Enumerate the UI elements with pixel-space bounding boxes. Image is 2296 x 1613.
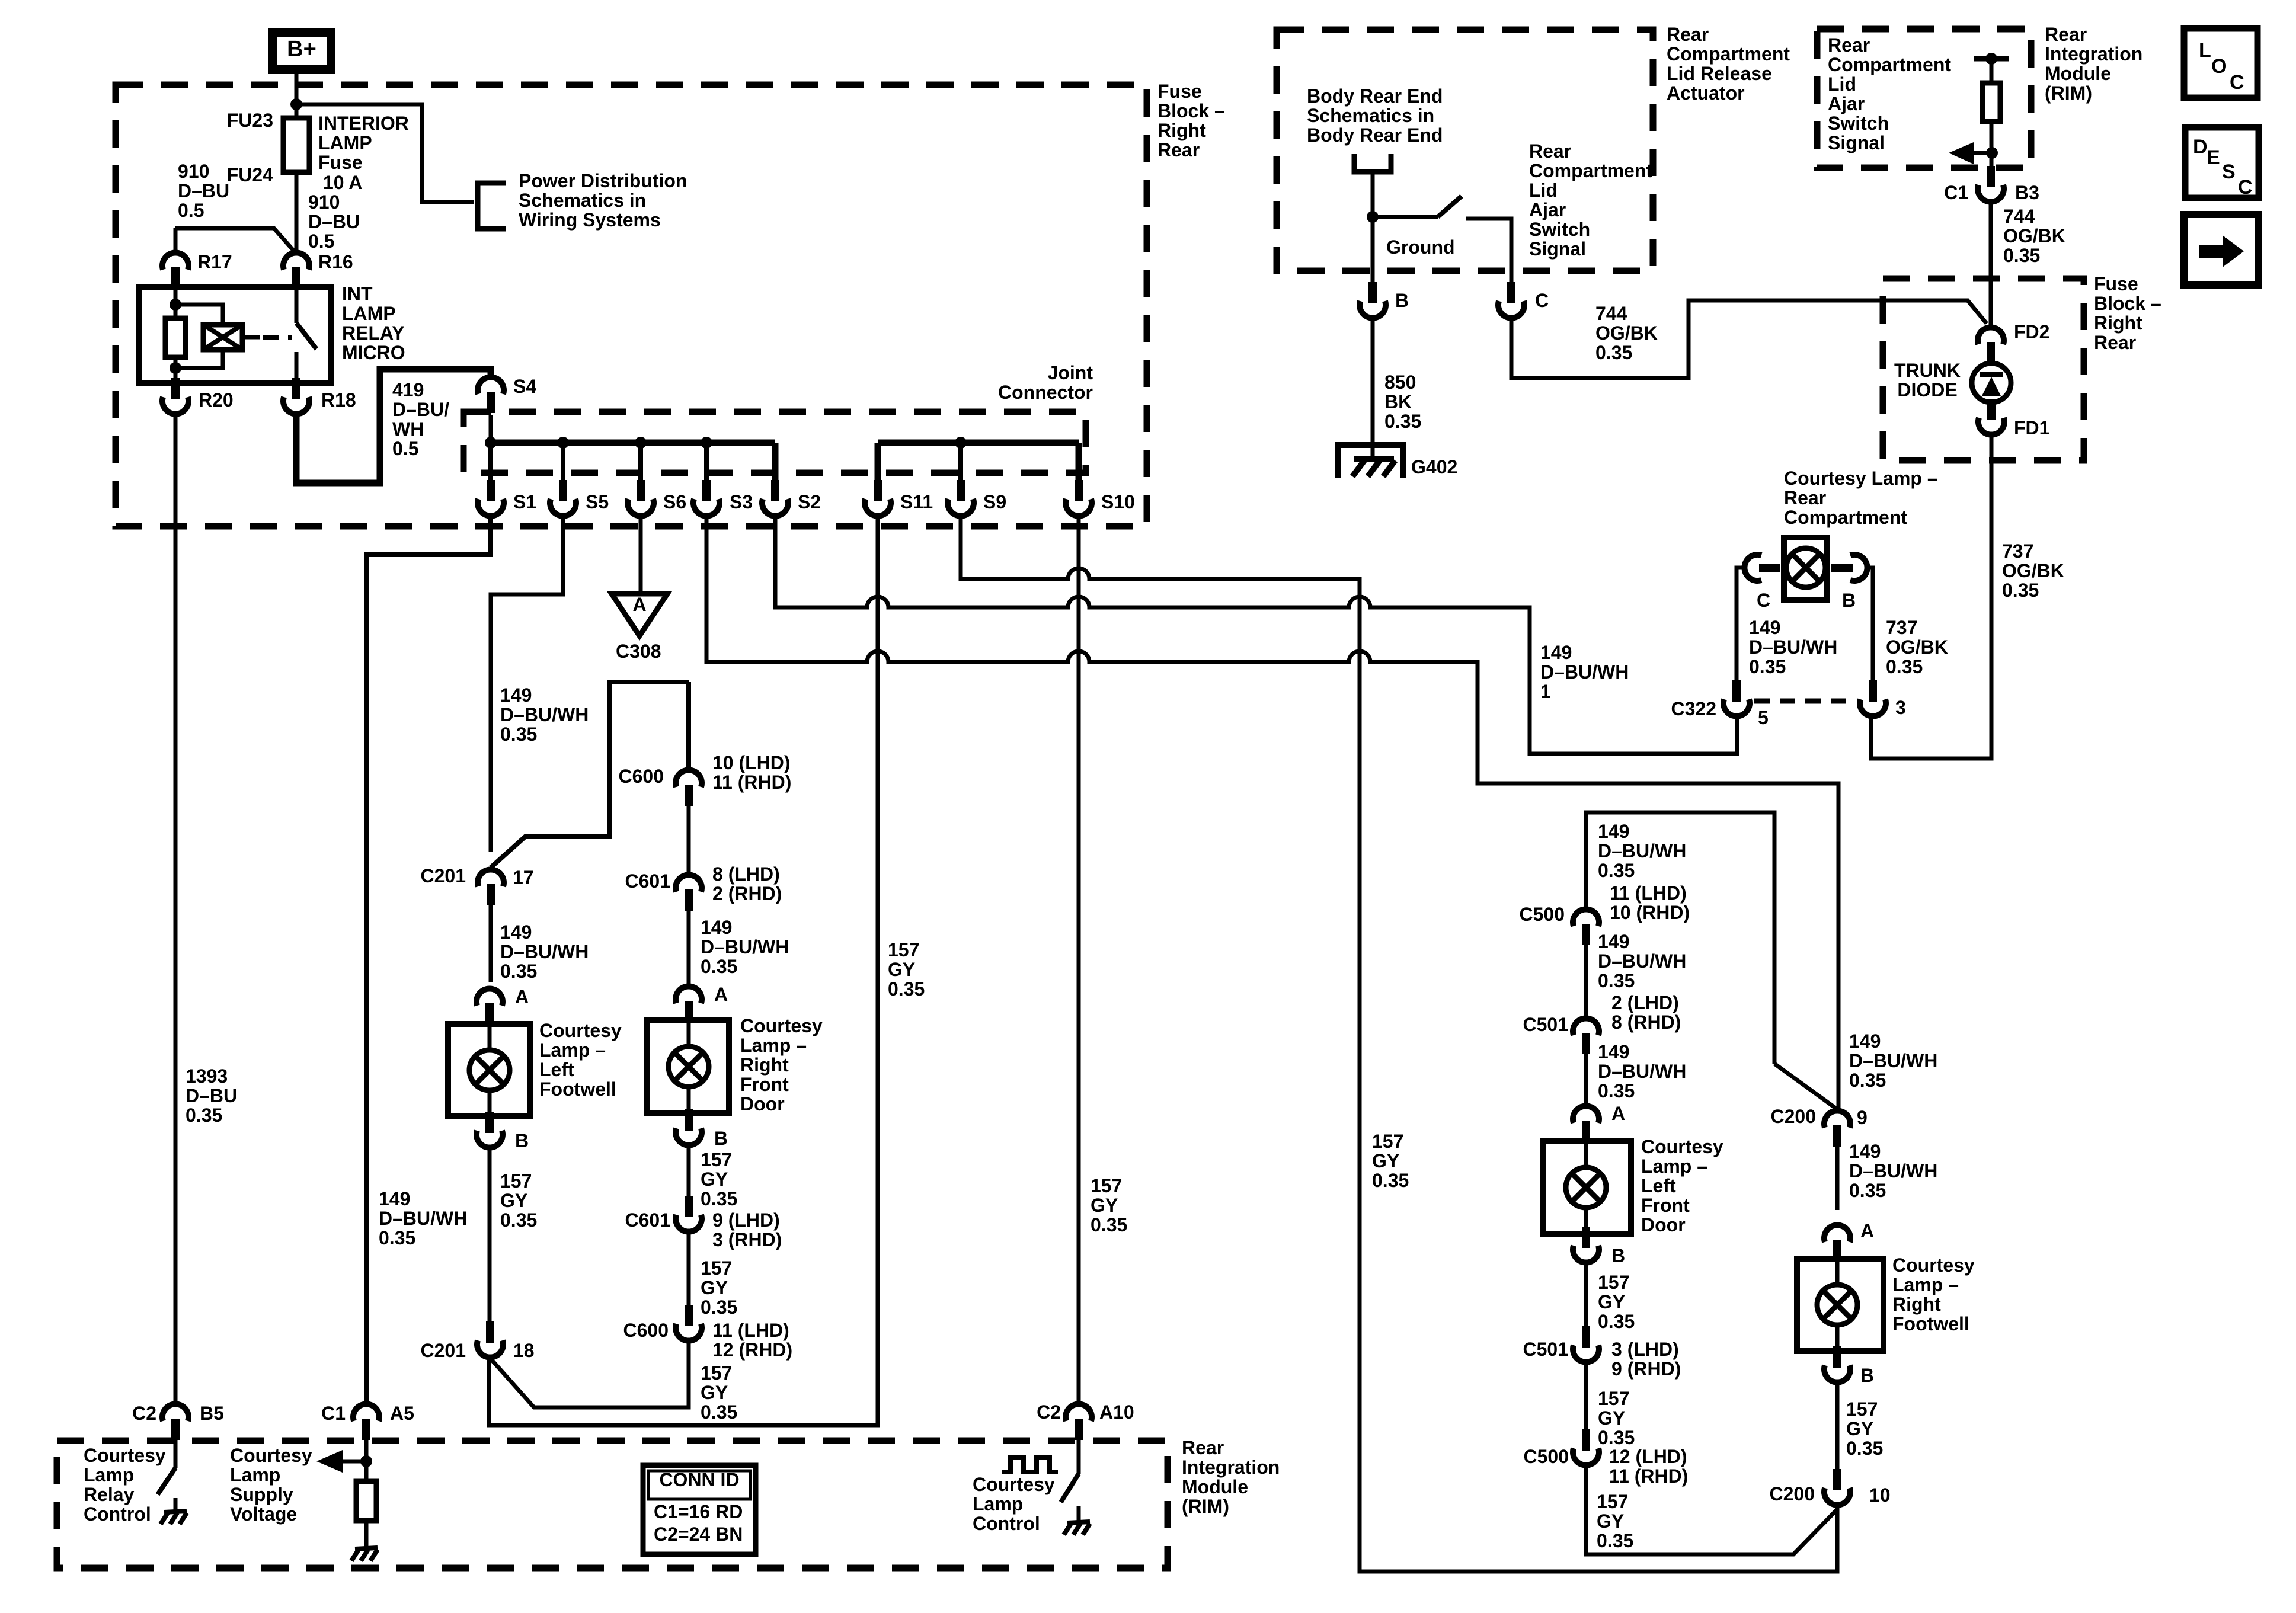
svg-text:A: A bbox=[714, 984, 728, 1005]
wire relay switch upper contact bbox=[295, 289, 299, 323]
node S5 junction bbox=[557, 437, 569, 449]
ground G402 bbox=[1338, 445, 1403, 478]
connector B body rear end bbox=[1360, 282, 1386, 318]
svg-text:8 (LHD)2 (RHD): 8 (LHD)2 (RHD) bbox=[712, 863, 782, 904]
wire switch left contact bbox=[1373, 215, 1438, 219]
wire bus drop to S5 bbox=[561, 443, 565, 501]
splice S4 bbox=[478, 377, 504, 413]
svg-text:A: A bbox=[1860, 1220, 1874, 1241]
svg-text:C308: C308 bbox=[616, 641, 661, 662]
node RIM rail junction bbox=[1985, 53, 1997, 65]
connector C2 pin B5 bbox=[162, 1404, 188, 1440]
svg-text:9 (LHD)3 (RHD): 9 (LHD)3 (RHD) bbox=[712, 1209, 782, 1250]
svg-text:R18: R18 bbox=[321, 389, 356, 411]
wire 149 C600/10 to C201/17 bbox=[491, 682, 689, 868]
svg-text:B5: B5 bbox=[200, 1403, 224, 1424]
svg-text:CONN ID: CONN ID bbox=[659, 1469, 739, 1490]
arrow lid ajar switch signal bbox=[1949, 142, 1974, 164]
splice S10 bbox=[1066, 480, 1092, 516]
wire 149 S2 to C322/5 bbox=[775, 517, 1737, 754]
svg-text:C200: C200 bbox=[1770, 1483, 1815, 1505]
svg-text:B: B bbox=[1611, 1245, 1625, 1266]
relay pin R17 bbox=[162, 252, 188, 289]
wire 149 C200/9 branch to C500/11 bbox=[1586, 812, 1774, 1064]
fuse block pin FD1 bbox=[1978, 399, 2004, 435]
svg-text:TRUNKDIODE: TRUNKDIODE bbox=[1894, 360, 1961, 401]
connector C200 pin 10 bbox=[1824, 1469, 1850, 1505]
svg-text:B: B bbox=[515, 1130, 529, 1151]
fuse block - right rear dashed box bbox=[116, 85, 1147, 526]
svg-text:E: E bbox=[2207, 146, 2220, 169]
wire bus drop to S9 bbox=[958, 443, 963, 501]
svg-text:S1: S1 bbox=[513, 491, 536, 513]
wire B5 into RIM bbox=[174, 1440, 178, 1468]
svg-text:C2: C2 bbox=[1037, 1401, 1061, 1423]
wire bus drop to S6 bbox=[638, 443, 643, 501]
svg-text:C2: C2 bbox=[132, 1403, 156, 1424]
svg-text:10 A: 10 A bbox=[323, 172, 362, 193]
wire relay switch lower contact to R18 bbox=[295, 352, 299, 387]
svg-text:O: O bbox=[2211, 55, 2227, 78]
wire to arrow bbox=[343, 1460, 366, 1464]
wire 149 S5 to C201/17 bbox=[491, 517, 563, 852]
node S6 junction bbox=[635, 437, 647, 449]
connector B left footwell bbox=[477, 1112, 503, 1148]
wire switch common bbox=[1371, 172, 1375, 284]
wire resistor to B3 bbox=[1990, 121, 1994, 168]
node relay coil bottom junction bbox=[170, 362, 181, 374]
svg-text:S2: S2 bbox=[798, 491, 821, 513]
svg-text:S3: S3 bbox=[730, 491, 753, 513]
wire A10 into RIM bbox=[1077, 1440, 1081, 1474]
svg-text:9: 9 bbox=[1857, 1107, 1868, 1128]
wire resistor to ground bbox=[364, 1521, 369, 1547]
rear integration module bottom dashed box bbox=[57, 1441, 1168, 1568]
svg-text:10: 10 bbox=[1869, 1484, 1891, 1506]
connector B left front door bbox=[1573, 1227, 1599, 1263]
connector B right footwell bbox=[1824, 1346, 1850, 1382]
wire 157 S11 to C201/18 bbox=[489, 517, 878, 1425]
wire drop to R17 bbox=[174, 228, 178, 252]
connector C rear compartment lamp bbox=[1744, 555, 1780, 581]
svg-text:C: C bbox=[1535, 290, 1549, 311]
trunk diode symbol bbox=[1972, 363, 2011, 402]
ground courtesy lamp relay control bbox=[161, 1511, 187, 1524]
connector C500 pin 11/10 bbox=[1573, 909, 1599, 945]
wire 157 lamp B to C201/18 bbox=[488, 1148, 492, 1323]
relay resistor bbox=[165, 318, 186, 357]
wire 157 C601 to C600 bbox=[687, 1233, 691, 1307]
fuse FU23 INTERIOR LAMP 10A bbox=[283, 118, 309, 172]
svg-text:C201: C201 bbox=[421, 1340, 466, 1361]
wire bus drop to S1 bbox=[488, 443, 493, 501]
svg-text:A10: A10 bbox=[1099, 1401, 1134, 1423]
lamp courtesy left front door bbox=[1543, 1141, 1631, 1234]
wire 157 C500 to C200/10 bbox=[1586, 1466, 1837, 1554]
wire down to C600 bbox=[686, 682, 691, 767]
splice S6 bbox=[628, 480, 654, 516]
node S9 junction bbox=[955, 437, 967, 449]
wire 149 S3 to C200/9 bbox=[706, 517, 1838, 1108]
svg-text:18: 18 bbox=[513, 1340, 535, 1361]
svg-text:A: A bbox=[632, 594, 646, 615]
svg-text:S4: S4 bbox=[513, 376, 536, 397]
node RIM arrow junction bbox=[1986, 147, 1998, 159]
battery terminal B+ bbox=[268, 28, 335, 74]
connector B right front door bbox=[676, 1109, 702, 1145]
relay INT LAMP RELAY MICRO box bbox=[139, 287, 331, 383]
connector A right front door bbox=[676, 986, 702, 1022]
fuse block pin FD2 bbox=[1978, 327, 2004, 363]
node junction below B+ bbox=[290, 98, 302, 110]
connector C2 pin A10 bbox=[1066, 1404, 1092, 1440]
svg-text:C500: C500 bbox=[1524, 1446, 1569, 1467]
lamp courtesy left footwell bbox=[448, 1024, 530, 1116]
connector C322 pin 5 bbox=[1723, 680, 1750, 716]
wire B+ to fuse FU23 bbox=[295, 74, 299, 117]
svg-text:12 (LHD)11 (RHD): 12 (LHD)11 (RHD) bbox=[1609, 1446, 1688, 1487]
ground RIM A5 bbox=[351, 1548, 378, 1561]
wire 149 lamp C to C322/5 bbox=[1737, 568, 1744, 680]
power distribution bracket bbox=[478, 183, 506, 229]
wire 1393 R20 to RIM B5 bbox=[174, 417, 178, 1402]
svg-text:5: 5 bbox=[1758, 707, 1769, 728]
wire 419 D-BU/WH from R18 to S4 bbox=[296, 369, 491, 483]
svg-text:FD1: FD1 bbox=[2014, 417, 2049, 439]
wire switch to ground bbox=[174, 1498, 178, 1510]
wire 737 lamp B to C322/3 bbox=[1868, 568, 1873, 680]
bus wire joint connector left segment bbox=[491, 440, 775, 446]
CONN ID table bbox=[643, 1465, 756, 1554]
svg-text:Ground: Ground bbox=[1386, 236, 1455, 258]
wire 157 S9 to C200/10 bbox=[961, 517, 1837, 1572]
joint connector dashed box bbox=[463, 412, 1086, 473]
svg-text:10 (LHD)11 (RHD): 10 (LHD)11 (RHD) bbox=[712, 752, 791, 793]
wire 744 OG/BK switch C to FD2 bbox=[1511, 300, 1987, 378]
node S3 junction bbox=[701, 437, 712, 449]
connector A left footwell bbox=[477, 988, 503, 1025]
lamp courtesy right footwell bbox=[1797, 1259, 1884, 1351]
connector C201 pin 17 bbox=[478, 869, 504, 905]
svg-text:D: D bbox=[2193, 136, 2208, 158]
arrow courtesy lamp supply voltage bbox=[316, 1450, 343, 1473]
wire 157 lamp B to C601/9 bbox=[687, 1146, 691, 1197]
node switch junction bbox=[1367, 211, 1379, 223]
svg-text:B+: B+ bbox=[287, 37, 316, 62]
svg-text:11 (LHD)10 (RHD): 11 (LHD)10 (RHD) bbox=[1610, 882, 1690, 923]
wire to relay coil top bbox=[175, 305, 223, 325]
connector A left front door bbox=[1573, 1106, 1599, 1142]
svg-text:C: C bbox=[2230, 71, 2244, 94]
connector C600 pin 11/12 bbox=[676, 1305, 702, 1341]
wire to power distribution bbox=[296, 104, 474, 202]
svg-text:2 (LHD)8 (RHD): 2 (LHD)8 (RHD) bbox=[1611, 992, 1681, 1033]
connector C501 pin 2/8 bbox=[1573, 1018, 1599, 1054]
relay pin R20 bbox=[162, 378, 188, 414]
svg-text:17: 17 bbox=[513, 867, 534, 888]
svg-text:Body Rear EndSchematics inBody: Body Rear EndSchematics inBody Rear End bbox=[1307, 85, 1443, 146]
svg-text:S: S bbox=[2222, 161, 2236, 183]
svg-text:B: B bbox=[1842, 590, 1856, 611]
RIM pull-up resistor B3 bbox=[1982, 83, 2000, 121]
ground courtesy lamp control bbox=[1064, 1522, 1090, 1535]
svg-text:S11: S11 bbox=[900, 491, 933, 513]
svg-text:S5: S5 bbox=[586, 491, 609, 513]
splice S1 bbox=[478, 480, 504, 516]
svg-text:C600: C600 bbox=[623, 1320, 669, 1341]
connector A right footwell bbox=[1824, 1225, 1850, 1261]
svg-text:A: A bbox=[1611, 1103, 1625, 1124]
wire 910 branch to R17 bbox=[175, 228, 296, 253]
connector C322 pin 3 bbox=[1860, 680, 1886, 716]
body rear end connection bracket bbox=[1354, 154, 1391, 172]
svg-text:S9: S9 bbox=[983, 491, 1006, 513]
switch blade lid ajar bbox=[1438, 196, 1462, 217]
splice S11 bbox=[865, 480, 891, 516]
wire 149 C500 to C501 bbox=[1584, 945, 1588, 1016]
connector C201 pin 18 bbox=[477, 1321, 503, 1358]
connector C601 pin 9/3 bbox=[676, 1196, 702, 1232]
body rear end dashed box bbox=[1277, 30, 1653, 271]
svg-text:C601: C601 bbox=[625, 1209, 671, 1231]
wire RIM internal rail bbox=[1974, 56, 2009, 62]
svg-text:G402: G402 bbox=[1411, 456, 1457, 478]
svg-text:11 (LHD)12 (RHD): 11 (LHD)12 (RHD) bbox=[712, 1320, 792, 1361]
svg-text:C1: C1 bbox=[321, 1403, 346, 1424]
rear integration module top dashed box bbox=[1817, 29, 2031, 168]
wire 149 C600 to C601 bbox=[687, 806, 691, 872]
svg-text:FU24: FU24 bbox=[227, 164, 273, 185]
splice S2 bbox=[762, 480, 788, 516]
wire switch to ground bbox=[1077, 1506, 1081, 1521]
svg-text:C1: C1 bbox=[1944, 182, 1968, 203]
connector C1 pin A5 bbox=[353, 1404, 379, 1440]
connector C body rear end bbox=[1498, 282, 1524, 318]
wire 149 C601 to lamp A bbox=[687, 911, 691, 984]
wire switch right contact to C bbox=[1466, 219, 1511, 284]
svg-text:3: 3 bbox=[1895, 697, 1906, 718]
wire 910 fuse to R16 bbox=[295, 172, 299, 252]
trunk diode dashed box bbox=[1883, 279, 2084, 460]
wire R17 to resistor bbox=[174, 289, 178, 318]
wire 157 S10 to RIM A10 bbox=[1077, 517, 1081, 1402]
svg-text:C600: C600 bbox=[619, 766, 664, 787]
svg-text:FU23: FU23 bbox=[227, 110, 273, 131]
icon arrow bbox=[2184, 215, 2259, 285]
svg-text:C: C bbox=[2238, 176, 2253, 199]
wire bus to S11 bbox=[875, 443, 881, 501]
svg-text:R20: R20 bbox=[199, 389, 234, 411]
wire diagonal to C200/9 bbox=[1774, 1064, 1837, 1109]
svg-text:C501: C501 bbox=[1523, 1014, 1569, 1035]
svg-text:R16: R16 bbox=[318, 251, 353, 273]
wire bus to S2 bbox=[772, 443, 779, 501]
svg-text:C201: C201 bbox=[421, 865, 466, 886]
svg-text:C: C bbox=[1757, 590, 1770, 611]
wire S6 to C308 bbox=[639, 517, 643, 593]
wire diode to FD1 bbox=[1988, 402, 1995, 409]
lamp courtesy rear compartment bbox=[1784, 537, 1827, 600]
svg-text:3 (LHD)9 (RHD): 3 (LHD)9 (RHD) bbox=[1611, 1339, 1681, 1380]
wire 737 FD1 to C322/3 bbox=[1871, 436, 1991, 759]
wire 149 C200/9 to lamp A bbox=[1835, 1147, 1840, 1210]
lamp courtesy right front door bbox=[647, 1020, 729, 1113]
connector C308 triangle A bbox=[612, 594, 667, 636]
svg-text:R17: R17 bbox=[197, 251, 232, 273]
svg-text:C601: C601 bbox=[625, 870, 671, 892]
wire relay coil bottom bbox=[175, 350, 223, 368]
wire resistor to R20 bbox=[174, 357, 178, 387]
svg-text:S10: S10 bbox=[1101, 491, 1135, 513]
svg-text:C501: C501 bbox=[1523, 1339, 1569, 1360]
svg-text:C500: C500 bbox=[1520, 904, 1565, 925]
connector B rear compartment lamp bbox=[1831, 555, 1868, 581]
wire A5 to resistor bbox=[364, 1440, 369, 1481]
relay pin R18 bbox=[283, 378, 309, 414]
connector C501 pin 3/9 bbox=[1573, 1326, 1599, 1362]
wire S4 to bus bbox=[489, 415, 493, 443]
node relay coil top junction bbox=[170, 299, 181, 311]
wire bus drop to S3 bbox=[704, 443, 709, 501]
node S1/S4 junction bbox=[485, 437, 497, 449]
svg-text:C200: C200 bbox=[1771, 1106, 1817, 1127]
relay coil bbox=[203, 325, 242, 350]
switch blade courtesy lamp relay control bbox=[158, 1468, 175, 1494]
connector C1 pin B3 bbox=[1978, 166, 2004, 202]
svg-text:L: L bbox=[2199, 39, 2211, 62]
wire 157 C501 to C500 bbox=[1584, 1363, 1588, 1429]
splice S5 bbox=[550, 480, 576, 516]
icon LOC bbox=[2184, 28, 2257, 98]
connector C500 pin 12/11 bbox=[1573, 1429, 1599, 1465]
splice S3 bbox=[693, 480, 720, 516]
wire coil stub bbox=[242, 335, 260, 340]
connector C601 pin 8/2 bbox=[676, 875, 702, 911]
wire 744 B3 to FD2 bbox=[1989, 203, 1993, 325]
svg-text:FD2: FD2 bbox=[2014, 321, 2049, 343]
svg-text:S6: S6 bbox=[663, 491, 686, 513]
wire 850 BK to G402 bbox=[1371, 319, 1375, 460]
icon DESC bbox=[2185, 127, 2259, 198]
connector C322 dashed link bbox=[1754, 699, 1856, 704]
svg-text:A: A bbox=[515, 986, 529, 1007]
node A5 arrow junction bbox=[360, 1455, 372, 1467]
svg-text:B3: B3 bbox=[2015, 182, 2039, 203]
wire rail to resistor bbox=[1990, 59, 1994, 83]
relay coil-switch dashed link bbox=[263, 335, 292, 340]
wire 149 C201/17 to lamp A bbox=[489, 905, 493, 982]
courtesy lamp control square wave icon bbox=[1002, 1458, 1058, 1472]
wire bus to S10 bbox=[1076, 443, 1082, 501]
connector C200 pin 9 bbox=[1824, 1110, 1850, 1147]
wire 157 lamp B to C501/3 bbox=[1584, 1263, 1588, 1327]
bus wire joint connector right segment bbox=[878, 440, 1079, 446]
svg-text:C322: C322 bbox=[1671, 698, 1717, 719]
wire stub FD2 to diode bbox=[1989, 361, 1993, 366]
wire 157 C600 to C201/18 bbox=[490, 1342, 689, 1407]
svg-text:B: B bbox=[1395, 290, 1409, 311]
splice S9 bbox=[948, 480, 974, 516]
wire 149 S1 to RIM A5 bbox=[366, 517, 491, 1402]
relay switch blade bbox=[296, 323, 316, 349]
svg-text:B: B bbox=[1860, 1365, 1874, 1386]
switch blade courtesy lamp control bbox=[1061, 1474, 1079, 1502]
wire 157 lamp B to C200/10 bbox=[1835, 1383, 1840, 1470]
wire 149 C501 to lamp A bbox=[1584, 1054, 1588, 1103]
svg-text:A5: A5 bbox=[390, 1403, 414, 1424]
wire to arrow bbox=[1974, 151, 1992, 155]
svg-text:B: B bbox=[714, 1128, 728, 1149]
connector C600 pin 10/11 bbox=[676, 770, 702, 806]
relay pin R16 bbox=[283, 252, 309, 289]
RIM pull resistor A5 bbox=[356, 1481, 376, 1521]
